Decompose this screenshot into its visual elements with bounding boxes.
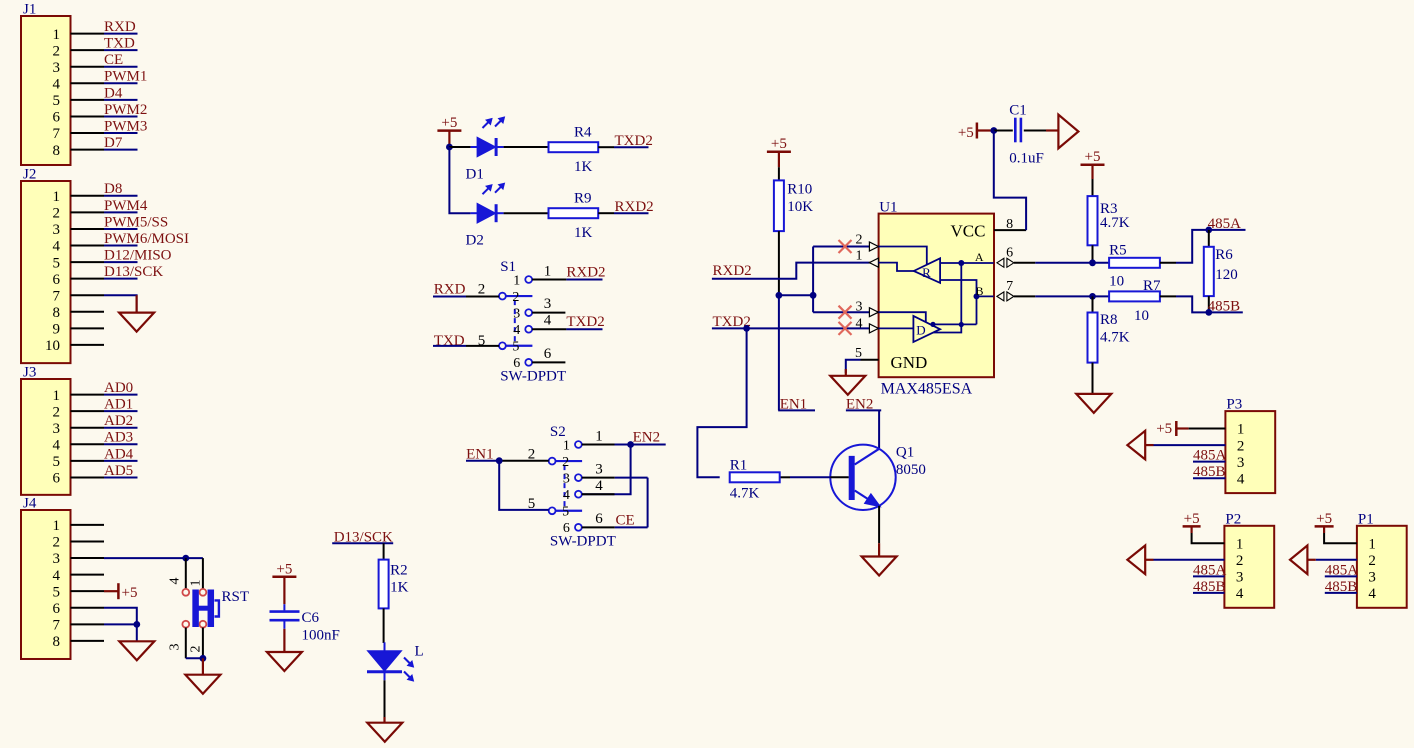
svg-text:+5: +5 bbox=[1085, 149, 1101, 165]
svg-text:7: 7 bbox=[53, 288, 61, 304]
switch S1 coupler dashed line bbox=[514, 300, 516, 342]
wire net PWM3 bbox=[104, 132, 138, 134]
wire R4 to TXD2 bbox=[598, 146, 614, 148]
wire 485B (P1 pin4) bbox=[1325, 592, 1357, 594]
resistor R10 bbox=[778, 167, 780, 180]
wire C1 to earth bbox=[1024, 130, 1046, 132]
junction R8/B bbox=[1089, 293, 1096, 300]
svg-text:R10: R10 bbox=[787, 182, 812, 198]
U1 driver triangle D bbox=[913, 316, 940, 342]
wire net D13/SCK bbox=[104, 278, 138, 280]
wire S2 pin3 to CE bbox=[582, 477, 615, 479]
svg-text:1: 1 bbox=[544, 263, 552, 279]
wire RXD to S1 pin2 bbox=[433, 296, 466, 298]
svg-text:1: 1 bbox=[563, 438, 570, 453]
wire 485A (P2 pin3) bbox=[1193, 575, 1224, 577]
ground (LED L) bbox=[367, 723, 402, 742]
wire RST pins 2/3 to ground bbox=[186, 657, 203, 659]
switch S2 coupler dashed line bbox=[564, 465, 566, 507]
svg-text:120: 120 bbox=[1215, 267, 1238, 283]
wire net D4 bbox=[104, 99, 138, 101]
push button RST bbox=[185, 558, 187, 589]
IC U1 body bbox=[879, 214, 994, 378]
wire RXD2 to U1 pin1 bbox=[712, 263, 870, 279]
wire 485A (P1 pin3) bbox=[1325, 575, 1357, 577]
junction J4 pin6/pin7 bbox=[133, 621, 140, 628]
svg-text:3: 3 bbox=[595, 461, 603, 477]
junction 485B bbox=[1205, 309, 1212, 316]
wire EN1 to S2 pin2 bbox=[466, 460, 499, 462]
svg-text:6: 6 bbox=[544, 346, 552, 362]
resistor R9 bbox=[549, 208, 599, 218]
svg-text:2: 2 bbox=[528, 447, 536, 463]
wire net AD3 bbox=[104, 443, 138, 445]
wire net PWM1 bbox=[104, 82, 138, 84]
svg-text:4: 4 bbox=[1368, 586, 1376, 602]
svg-text:AD1: AD1 bbox=[104, 397, 133, 413]
svg-text:PWM1: PWM1 bbox=[104, 69, 147, 85]
switch S1 pole levers bbox=[506, 295, 533, 297]
svg-text:+5: +5 bbox=[1184, 511, 1200, 527]
U1 internal wire pin4 to D input bbox=[879, 327, 914, 329]
wire J2 pin7 to ground bbox=[104, 295, 137, 312]
junction R3/A bbox=[1089, 259, 1096, 266]
svg-text:RXD2: RXD2 bbox=[615, 199, 654, 215]
wire S1 pin1 to RXD2 bbox=[532, 279, 566, 281]
svg-text:D: D bbox=[916, 323, 925, 338]
wire net PWM4 bbox=[104, 211, 138, 213]
ground (R8) bbox=[1076, 394, 1111, 413]
svg-text:3: 3 bbox=[53, 551, 61, 567]
svg-text:C6: C6 bbox=[302, 610, 320, 626]
svg-text:R8: R8 bbox=[1100, 312, 1118, 328]
LED D2 bbox=[478, 204, 495, 222]
svg-text:5: 5 bbox=[528, 496, 536, 512]
svg-text:R5: R5 bbox=[1109, 243, 1127, 259]
wire R5 to 485A bbox=[1160, 262, 1176, 264]
wire D1 to R4 bbox=[504, 146, 549, 148]
svg-text:3: 3 bbox=[168, 644, 183, 651]
svg-text:8050: 8050 bbox=[896, 462, 926, 478]
wire C6 to ground bbox=[283, 629, 285, 652]
U1 internal wire pin3 to D enable bbox=[879, 312, 926, 322]
svg-text:4: 4 bbox=[1236, 586, 1244, 602]
wire R2 to LED L bbox=[383, 608, 385, 643]
svg-text:R1: R1 bbox=[730, 458, 748, 474]
svg-text:+5: +5 bbox=[122, 585, 138, 601]
wire net PWM5/SS bbox=[104, 228, 138, 230]
svg-text:RXD2: RXD2 bbox=[566, 264, 605, 280]
wire CE vertical S2 pin3 to pin6 bbox=[647, 478, 649, 528]
svg-text:PWM4: PWM4 bbox=[104, 198, 148, 214]
U1 pin 4 bbox=[869, 327, 878, 329]
wire net D12/MISO bbox=[104, 261, 138, 263]
svg-text:6: 6 bbox=[53, 110, 61, 126]
wire U1 pin6 to R5 bbox=[1035, 262, 1109, 264]
svg-text:D4: D4 bbox=[104, 85, 123, 101]
svg-text:4: 4 bbox=[53, 239, 61, 255]
svg-text:4.7K: 4.7K bbox=[1100, 330, 1130, 346]
wire D13/SCK bbox=[332, 542, 393, 544]
svg-text:5: 5 bbox=[53, 93, 61, 109]
svg-text:10: 10 bbox=[1109, 274, 1124, 290]
connector J1 bbox=[21, 16, 71, 165]
svg-text:5: 5 bbox=[53, 255, 61, 271]
U1 pin 8 VCC bbox=[994, 229, 1026, 231]
svg-text:1K: 1K bbox=[390, 580, 409, 596]
RST pin circles bbox=[182, 589, 189, 596]
ground (U1) bbox=[845, 369, 847, 376]
svg-text:485B: 485B bbox=[1193, 464, 1226, 480]
wire S1 pin3 stub bbox=[532, 312, 565, 314]
svg-text:0.1uF: 0.1uF bbox=[1009, 151, 1044, 167]
connector J2 bbox=[21, 181, 71, 363]
wire U1 pin7 to R7 bbox=[1035, 295, 1109, 297]
wire net PWM6/MOSI bbox=[104, 245, 138, 247]
svg-text:+5: +5 bbox=[276, 561, 292, 577]
svg-text:6: 6 bbox=[53, 272, 61, 288]
wire net AD5 bbox=[104, 476, 138, 478]
svg-text:8: 8 bbox=[53, 634, 61, 650]
U1 pin 1 bbox=[869, 262, 878, 264]
svg-text:1: 1 bbox=[1237, 422, 1245, 438]
svg-text:10: 10 bbox=[45, 338, 60, 354]
svg-text:2: 2 bbox=[53, 206, 61, 222]
earth arrow (P1 pin2) bbox=[1316, 559, 1357, 561]
svg-text:CE: CE bbox=[104, 52, 123, 68]
wire LED L to ground bbox=[384, 680, 386, 717]
svg-text:EN2: EN2 bbox=[633, 429, 661, 445]
wire +5 down to D2 bbox=[449, 147, 470, 213]
switch S1 pin circles bbox=[499, 293, 506, 300]
svg-text:C1: C1 bbox=[1009, 103, 1027, 119]
svg-text:10: 10 bbox=[1134, 308, 1149, 324]
earth arrow (P2 pin2) bbox=[1154, 559, 1225, 561]
wire S2 pin6 bbox=[582, 526, 615, 528]
U1 internal wire A to D output bbox=[933, 263, 961, 333]
svg-text:J2: J2 bbox=[23, 167, 36, 183]
svg-text:4.7K: 4.7K bbox=[730, 486, 760, 502]
wire R3 to A line bbox=[1092, 245, 1094, 262]
no-ERC marker pin4 bbox=[839, 322, 852, 335]
transistor Q1 bbox=[830, 445, 895, 510]
svg-text:485A: 485A bbox=[1193, 448, 1227, 464]
svg-text:4.7K: 4.7K bbox=[1100, 215, 1130, 231]
svg-text:7: 7 bbox=[53, 126, 61, 142]
svg-text:1K: 1K bbox=[574, 225, 593, 241]
wire J4 pin6 down to pin7/ground bbox=[104, 608, 137, 642]
resistor R1 bbox=[730, 472, 780, 482]
resistor R2 bbox=[379, 560, 389, 609]
svg-text:MAX485ESA: MAX485ESA bbox=[881, 381, 973, 398]
svg-text:485A: 485A bbox=[1208, 216, 1242, 232]
svg-text:AD4: AD4 bbox=[104, 446, 134, 462]
junction R10/EN net bbox=[776, 292, 783, 299]
svg-text:6: 6 bbox=[1006, 246, 1013, 261]
svg-text:2: 2 bbox=[478, 282, 486, 298]
U1 internal wire pin2 to R enable bbox=[879, 247, 927, 265]
resistor R5 bbox=[1109, 258, 1160, 268]
svg-text:1: 1 bbox=[856, 248, 863, 263]
svg-text:R4: R4 bbox=[574, 125, 592, 141]
wire R7 to 485B bbox=[1160, 295, 1176, 297]
svg-text:+5: +5 bbox=[441, 115, 457, 131]
svg-text:5: 5 bbox=[855, 346, 862, 361]
wire S1 pin4 to TXD2 bbox=[532, 328, 566, 330]
svg-text:R6: R6 bbox=[1215, 247, 1233, 263]
wire Q1 emitter to ground bbox=[878, 506, 880, 543]
switch S2 pole levers bbox=[556, 460, 583, 462]
U1 receiver triangle R bbox=[914, 258, 940, 283]
power +5 (P3 pin1) bbox=[1189, 428, 1226, 430]
svg-text:3: 3 bbox=[544, 296, 552, 312]
svg-text:4: 4 bbox=[53, 438, 61, 454]
svg-text:PWM3: PWM3 bbox=[104, 118, 147, 134]
svg-text:P2: P2 bbox=[1225, 511, 1241, 527]
svg-text:4: 4 bbox=[856, 316, 863, 331]
svg-text:1: 1 bbox=[53, 27, 61, 43]
svg-text:2: 2 bbox=[856, 233, 863, 248]
U1 internal wire pin1 to R output bbox=[879, 263, 914, 271]
wire S1 pin6 stub bbox=[532, 361, 565, 363]
svg-text:4: 4 bbox=[53, 568, 61, 584]
svg-text:SW-DPDT: SW-DPDT bbox=[500, 369, 566, 385]
U1 pin 6 A bbox=[997, 258, 1004, 267]
svg-text:5: 5 bbox=[512, 340, 519, 355]
svg-text:U1: U1 bbox=[879, 200, 897, 216]
U1 pin 2 bbox=[869, 246, 878, 248]
U1 pin 3 bbox=[869, 311, 878, 313]
junction J4.3/RST.4 bbox=[182, 555, 189, 562]
svg-text:PWM2: PWM2 bbox=[104, 102, 147, 118]
svg-text:3: 3 bbox=[1237, 455, 1245, 471]
svg-text:6: 6 bbox=[53, 601, 61, 617]
connector P1 bbox=[1357, 526, 1407, 608]
wire net D8 bbox=[104, 195, 138, 197]
switch S2 pin circles bbox=[549, 458, 556, 465]
svg-text:D7: D7 bbox=[104, 135, 123, 151]
svg-text:3: 3 bbox=[1368, 570, 1376, 586]
earth arrow (P3 pin2) bbox=[1154, 444, 1226, 446]
svg-text:+5: +5 bbox=[1156, 421, 1172, 437]
svg-text:2: 2 bbox=[1237, 438, 1245, 454]
wire EN1 down to S2 pin5 bbox=[499, 461, 549, 510]
U1 pin 5 GND bbox=[861, 359, 879, 361]
no-ERC marker pin3 bbox=[839, 306, 852, 319]
connector J4 bbox=[21, 510, 71, 659]
wire D2 to R9 bbox=[504, 212, 549, 214]
wire S2 pin4 pin lead bbox=[582, 493, 615, 495]
svg-text:5: 5 bbox=[53, 454, 61, 470]
svg-text:2: 2 bbox=[53, 43, 61, 59]
svg-text:TXD2: TXD2 bbox=[615, 133, 653, 149]
svg-text:3: 3 bbox=[856, 300, 863, 315]
ground (J2 pin7) bbox=[136, 295, 138, 312]
LED L bbox=[369, 651, 401, 670]
wire 485A (P3 pin3) bbox=[1193, 461, 1225, 463]
svg-text:1: 1 bbox=[595, 428, 603, 444]
svg-text:R7: R7 bbox=[1143, 278, 1161, 294]
svg-text:100nF: 100nF bbox=[302, 628, 340, 644]
junction EN1 bbox=[496, 457, 503, 464]
svg-text:TXD2: TXD2 bbox=[566, 314, 604, 330]
junction RST gnd bbox=[200, 655, 207, 662]
svg-text:AD0: AD0 bbox=[104, 380, 133, 396]
svg-text:2: 2 bbox=[1368, 553, 1376, 569]
wire J4 pin3 to RST bbox=[104, 557, 203, 559]
wire S2 pin1 to EN2 bbox=[582, 444, 615, 446]
svg-text:4: 4 bbox=[1237, 471, 1245, 487]
svg-text:4: 4 bbox=[53, 77, 61, 93]
svg-text:VCC: VCC bbox=[951, 222, 986, 241]
connector P3 bbox=[1225, 411, 1275, 493]
wire 485B (P2 pin4) bbox=[1193, 592, 1224, 594]
wire R9 to RXD2 bbox=[598, 212, 614, 214]
svg-text:RXD: RXD bbox=[434, 282, 466, 298]
junction +5/C1/pin8 bbox=[990, 127, 997, 134]
ground (Q1) bbox=[862, 557, 897, 576]
power +5 (J4 pin5) bbox=[104, 590, 118, 592]
svg-text:4: 4 bbox=[168, 578, 183, 585]
svg-text:1K: 1K bbox=[574, 159, 593, 175]
ground (C6) bbox=[267, 652, 302, 671]
svg-text:8: 8 bbox=[53, 143, 61, 159]
capacitor C1 bbox=[994, 130, 1013, 132]
wire R8 to ground bbox=[1092, 363, 1094, 394]
svg-text:D1: D1 bbox=[466, 167, 484, 183]
svg-text:L: L bbox=[415, 644, 424, 660]
svg-text:TXD: TXD bbox=[104, 36, 135, 52]
junction +5/D1/D2 bbox=[446, 144, 453, 151]
svg-text:2: 2 bbox=[1236, 553, 1244, 569]
svg-text:485B: 485B bbox=[1325, 579, 1358, 595]
junction 485A bbox=[1205, 227, 1212, 234]
svg-text:2: 2 bbox=[53, 535, 61, 551]
svg-text:AD5: AD5 bbox=[104, 463, 133, 479]
resistor R8 bbox=[1092, 296, 1094, 312]
wire to U1 pin3 bbox=[813, 311, 869, 313]
wire +5 junction to U1 pin8 bbox=[994, 131, 1026, 231]
svg-text:A: A bbox=[975, 250, 984, 264]
svg-text:8: 8 bbox=[1006, 217, 1013, 232]
wire R10 to EN1 bbox=[778, 231, 780, 295]
U1 pin 7 B bbox=[997, 292, 1004, 301]
svg-text:5: 5 bbox=[562, 505, 569, 520]
svg-text:4: 4 bbox=[563, 488, 570, 503]
svg-text:485B: 485B bbox=[1208, 298, 1241, 314]
svg-text:3: 3 bbox=[513, 306, 520, 321]
RST button body bbox=[192, 590, 199, 628]
resistor R4 bbox=[549, 142, 599, 152]
svg-text:6: 6 bbox=[53, 471, 61, 487]
connector J3 bbox=[21, 379, 71, 495]
capacitor C6 bbox=[283, 604, 285, 610]
resistor R3 bbox=[1092, 179, 1094, 196]
svg-text:+5: +5 bbox=[771, 136, 787, 152]
svg-text:AD3: AD3 bbox=[104, 430, 133, 446]
svg-text:B: B bbox=[975, 284, 983, 298]
svg-text:AD2: AD2 bbox=[104, 413, 133, 429]
svg-text:485A: 485A bbox=[1193, 562, 1227, 578]
svg-text:RXD: RXD bbox=[104, 19, 136, 35]
svg-text:1: 1 bbox=[53, 189, 61, 205]
U1 internal wire D upper output to B bbox=[933, 323, 977, 325]
svg-text:1: 1 bbox=[1368, 536, 1376, 552]
svg-text:7: 7 bbox=[53, 618, 61, 634]
svg-text:3: 3 bbox=[563, 471, 570, 486]
svg-text:D8: D8 bbox=[104, 181, 122, 197]
svg-text:3: 3 bbox=[53, 421, 61, 437]
svg-text:D12/MISO: D12/MISO bbox=[104, 247, 172, 263]
junction A bbox=[958, 260, 964, 266]
svg-text:4: 4 bbox=[513, 323, 520, 338]
wire U1 pin5 to ground bbox=[846, 360, 861, 373]
RST bottom pins bbox=[185, 628, 187, 659]
svg-text:3: 3 bbox=[53, 222, 61, 238]
svg-text:1: 1 bbox=[1236, 536, 1244, 552]
svg-text:R2: R2 bbox=[390, 563, 408, 579]
wire Q1 base to R1 bbox=[780, 476, 790, 478]
wire net AD2 bbox=[104, 427, 138, 429]
ground (J4 pin6/7) bbox=[119, 641, 154, 660]
svg-text:J4: J4 bbox=[23, 496, 37, 512]
svg-text:3: 3 bbox=[53, 60, 61, 76]
wire EN2 to Q1 collector bbox=[878, 410, 880, 448]
svg-text:PWM6/MOSI: PWM6/MOSI bbox=[104, 231, 189, 247]
junction TXD2/Q1 branch bbox=[743, 325, 750, 332]
svg-text:485B: 485B bbox=[1193, 579, 1226, 595]
wire net D7 bbox=[104, 149, 138, 151]
svg-text:P3: P3 bbox=[1226, 397, 1242, 413]
resistor R6 termination bbox=[1208, 230, 1210, 247]
connector P2 bbox=[1224, 526, 1274, 608]
resistor R7 bbox=[1109, 291, 1160, 301]
wire to R2 bbox=[383, 543, 385, 559]
svg-text:485A: 485A bbox=[1325, 562, 1359, 578]
no-ERC marker pin2 bbox=[839, 240, 852, 253]
svg-text:7: 7 bbox=[1006, 279, 1013, 294]
svg-text:9: 9 bbox=[53, 322, 61, 338]
svg-text:1: 1 bbox=[53, 388, 61, 404]
svg-text:R: R bbox=[922, 265, 931, 280]
svg-text:SW-DPDT: SW-DPDT bbox=[550, 534, 616, 550]
wire net CE bbox=[104, 66, 138, 68]
wire 485B (P3 pin4) bbox=[1193, 477, 1225, 479]
svg-text:J3: J3 bbox=[23, 365, 36, 381]
wire net AD4 bbox=[104, 460, 138, 462]
wire TXD2 to U1 pin4 bbox=[712, 327, 870, 329]
ground (RST) bbox=[202, 658, 204, 674]
svg-text:2: 2 bbox=[189, 646, 204, 653]
svg-text:3: 3 bbox=[1236, 570, 1244, 586]
svg-text:P1: P1 bbox=[1358, 511, 1374, 527]
U1 internal wire R lower input to B bbox=[940, 280, 976, 296]
svg-text:R9: R9 bbox=[574, 191, 592, 207]
LED D1 bbox=[478, 138, 495, 156]
wire net TXD bbox=[104, 49, 138, 51]
svg-text:+5: +5 bbox=[1316, 511, 1332, 527]
svg-text:4: 4 bbox=[595, 478, 603, 494]
wire net PWM2 bbox=[104, 115, 138, 117]
svg-text:CE: CE bbox=[616, 512, 635, 528]
wire net RXD bbox=[104, 33, 138, 35]
svg-text:RXD2: RXD2 bbox=[713, 263, 752, 279]
svg-text:Q1: Q1 bbox=[896, 445, 914, 461]
wire +5 to D1 bbox=[449, 146, 470, 148]
svg-text:2: 2 bbox=[512, 290, 519, 305]
svg-text:4: 4 bbox=[544, 313, 552, 329]
wire to U1 pin2 bbox=[813, 246, 869, 248]
